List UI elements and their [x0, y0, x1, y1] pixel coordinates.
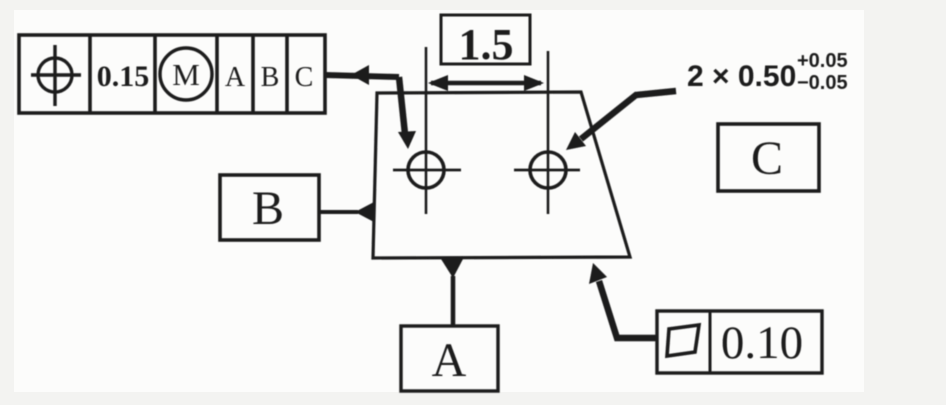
- svg-text:C: C: [295, 62, 314, 93]
- center line left hole: [425, 47, 428, 214]
- trapezoid part outline: [373, 92, 630, 258]
- dimension box 1.5: [441, 15, 530, 64]
- datum A box: [401, 326, 498, 391]
- datum B leader and triangle: [319, 210, 358, 214]
- datum C box: [718, 124, 819, 191]
- leader from FCF1 to left hole: [325, 65, 416, 149]
- flatness FCF2 box: [657, 311, 822, 373]
- svg-text:2 × 0.50: 2 × 0.50: [687, 60, 796, 93]
- datum A leader: [451, 276, 456, 326]
- svg-text:1.5: 1.5: [459, 20, 514, 69]
- feature control frame FCF1 outer box: [19, 35, 325, 113]
- dimension line with arrows: [428, 75, 544, 91]
- svg-text:B: B: [252, 182, 284, 235]
- svg-text:B: B: [261, 62, 280, 93]
- svg-text:−0.05: −0.05: [797, 72, 848, 94]
- datum B box: [220, 175, 319, 240]
- center line right hole: [547, 51, 550, 214]
- right hole: [530, 152, 566, 188]
- svg-text:0.10: 0.10: [721, 317, 803, 369]
- flatness symbol parallelogram: [667, 325, 699, 356]
- left hole: [408, 152, 444, 188]
- svg-text:C: C: [751, 132, 783, 185]
- MMC modifier M circle: [160, 48, 212, 100]
- svg-text:0.15: 0.15: [97, 60, 150, 93]
- svg-text:+0.05: +0.05: [797, 50, 848, 72]
- leader from flatness FCF2 to bottom surface: [589, 263, 657, 338]
- svg-text:A: A: [225, 62, 246, 93]
- datum A triangle: [441, 259, 463, 278]
- leader from 2x0.50 note to right hole: [566, 91, 676, 150]
- svg-text:A: A: [432, 334, 467, 387]
- position symbol: [31, 45, 81, 106]
- svg-text:M: M: [172, 57, 200, 92]
